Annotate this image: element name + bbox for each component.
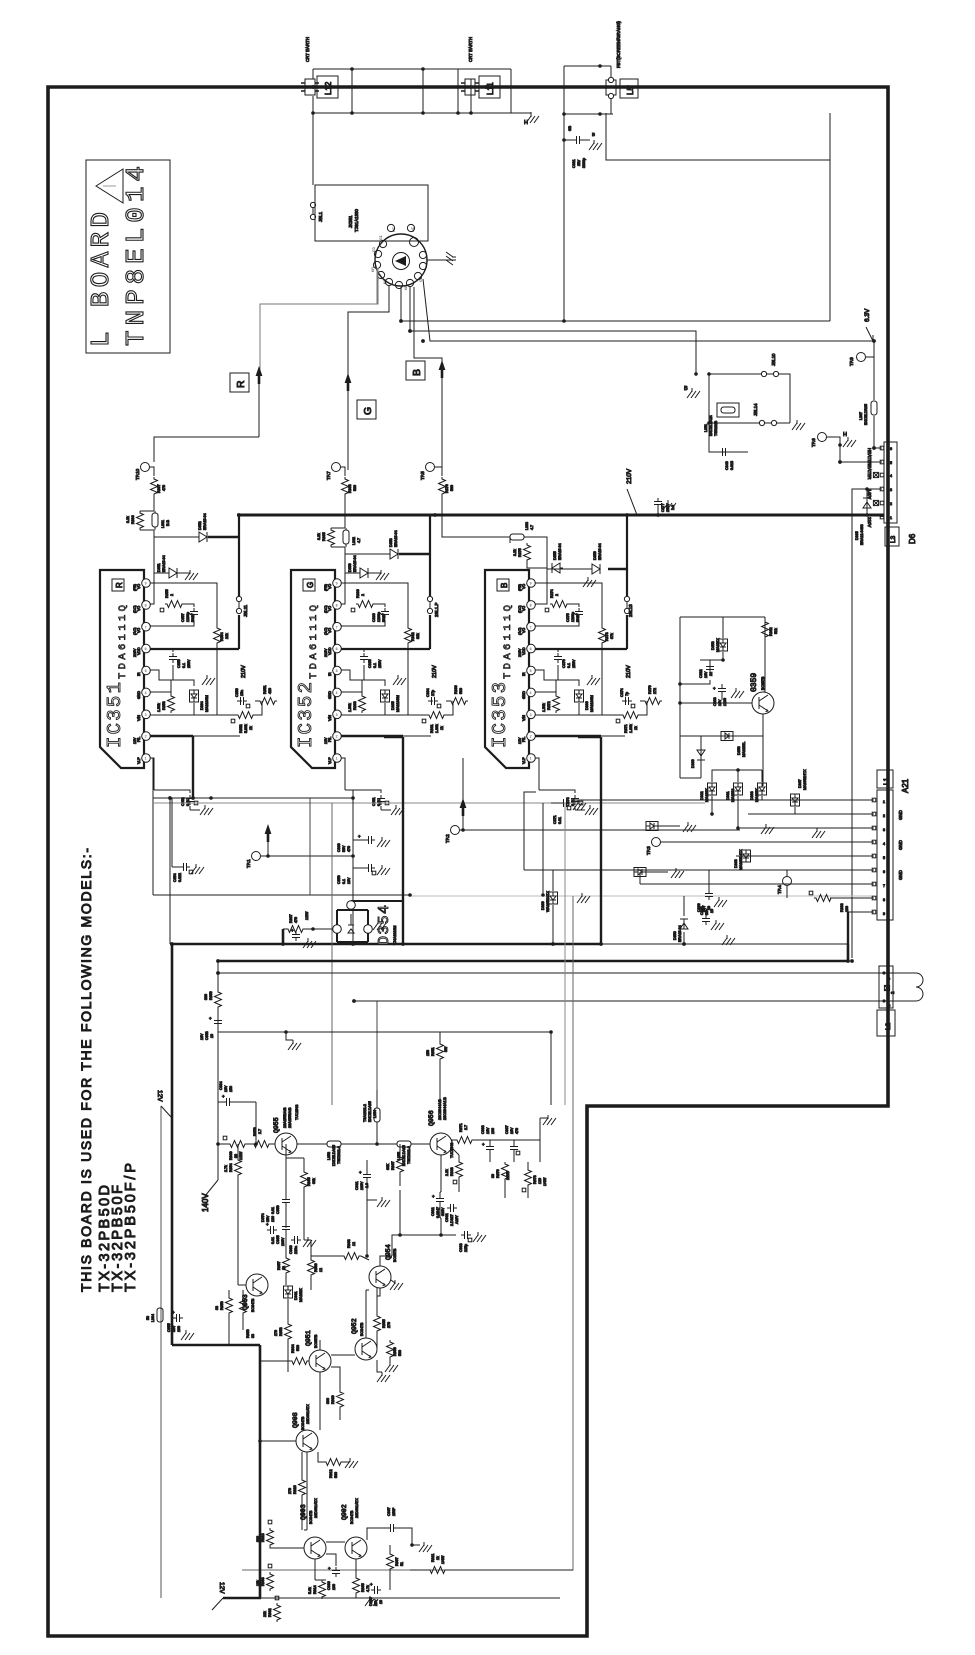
svg-text:51: 51	[400, 1562, 404, 1566]
junction dots top rails	[311, 67, 473, 115]
test point TP.4	[783, 877, 792, 886]
wire: R382 to collector	[763, 639, 765, 692]
resistor R368	[342, 477, 349, 496]
diode D365 boxed	[381, 690, 390, 702]
resistor R969	[228, 1141, 247, 1148]
svg-text:G3: G3	[372, 247, 376, 252]
svg-text:L2: L2	[885, 1022, 892, 1030]
svg-text:TP.4: TP.4	[777, 885, 782, 894]
capacitor C960	[291, 1236, 301, 1244]
connector L12 symbol	[301, 79, 319, 95]
wire: input to pin8	[150, 573, 154, 604]
svg-text:7: 7	[530, 625, 532, 629]
svg-text:BXCELBA24: BXCELBA24	[709, 415, 713, 436]
svg-text:C357: C357	[181, 613, 185, 622]
svg-text:VDD: VDD	[522, 647, 526, 655]
svg-text:560: 560	[334, 1472, 338, 1478]
svg-text:MA313SM: MA313SM	[205, 695, 209, 712]
svg-text:3: 3	[883, 828, 885, 832]
diode D352	[154, 532, 210, 542]
svg-text:D364: D364	[200, 701, 204, 710]
svg-text:250V: 250V	[572, 659, 576, 668]
svg-text:D351: D351	[157, 563, 161, 572]
svg-text:VO: VO	[137, 584, 141, 589]
svg-text:VIN: VIN	[328, 715, 332, 721]
diode D360	[697, 750, 705, 760]
svg-text:C360: C360	[337, 843, 341, 852]
svg-text:TSK1011-2: TSK1011-2	[337, 1146, 341, 1164]
wire: IC352 pin2 thick drop	[384, 737, 403, 944]
resistor R365	[328, 528, 335, 547]
svg-text:VLP: VLP	[137, 757, 141, 764]
resistor R397	[151, 477, 158, 496]
resistor R954b	[290, 1358, 309, 1365]
diode D366 boxed	[575, 690, 584, 702]
svg-text:L351: L351	[704, 424, 708, 432]
svg-text:FBT(SCREEN/GRANG): FBT(SCREEN/GRANG)	[616, 21, 621, 68]
svg-text:210V: 210V	[518, 648, 522, 657]
capacitor C376	[557, 649, 559, 680]
svg-text:C959: C959	[276, 1205, 280, 1214]
svg-text:12: 12	[282, 1266, 286, 1270]
svg-text:7: 7	[336, 625, 338, 629]
wire: Q903/Q902 net	[315, 1542, 356, 1580]
capacitor C355	[172, 649, 174, 680]
wire: pin5 row	[150, 670, 194, 686]
wire: pin3 row	[535, 714, 621, 716]
svg-text:BC847B: BC847B	[350, 1510, 354, 1524]
resistor R970b	[502, 1162, 509, 1181]
capacitor C962	[447, 1204, 457, 1212]
svg-text:560: 560	[459, 688, 463, 694]
svg-text:ERA15-04: ERA15-04	[394, 530, 398, 547]
svg-text:NC: NC	[411, 226, 415, 232]
models note text	[78, 848, 139, 1292]
wire: pin9 to R373	[535, 583, 602, 626]
svg-text:C355: C355	[177, 659, 181, 668]
capacitor C982	[436, 1195, 444, 1205]
box B	[406, 361, 425, 380]
wire: B arrow down	[441, 378, 443, 470]
svg-text:180: 180	[271, 1216, 275, 1222]
capacitor C987	[510, 1143, 518, 1153]
svg-text:GND: GND	[898, 840, 903, 850]
wire: gray feedback row	[153, 802, 705, 804]
capacitor C988	[486, 1143, 494, 1153]
svg-text:2SD601ATX: 2SD601ATX	[355, 1498, 359, 1518]
arrow TP1	[265, 824, 272, 842]
diode D361	[734, 783, 743, 795]
test point TP.1	[252, 852, 261, 861]
svg-text:2: 2	[883, 814, 885, 818]
svg-text:2: 2	[336, 735, 338, 739]
wire: pin4 gnd row	[535, 691, 556, 693]
svg-text:ERA15-04: ERA15-04	[678, 925, 682, 942]
svg-text:150: 150	[426, 1050, 430, 1056]
diode D365	[863, 498, 871, 508]
svg-text:VO: VO	[328, 606, 332, 611]
capacitor C351	[345, 790, 391, 810]
capacitor C371	[551, 802, 560, 804]
svg-text:R361: R361	[430, 724, 434, 733]
svg-text:WA3051HTX: WA3051HTX	[546, 891, 550, 912]
svg-text:R905: R905	[361, 1583, 365, 1592]
svg-text:TP.10: TP.10	[135, 468, 140, 480]
wire: Q955 base/collector	[218, 1102, 275, 1144]
arrow G	[345, 373, 352, 391]
svg-text:2: 2	[170, 594, 174, 596]
svg-text:2.7: 2.7	[464, 1125, 468, 1130]
svg-text:0.1: 0.1	[567, 663, 571, 668]
capacitor C357	[150, 604, 194, 626]
svg-text:TSK1011-2: TSK1011-2	[407, 1146, 411, 1164]
svg-text:(AC): (AC)	[133, 628, 137, 635]
wire: screen net down	[563, 140, 565, 321]
svg-text:BC847B: BC847B	[360, 1322, 364, 1336]
svg-text:33: 33	[251, 1334, 255, 1338]
svg-text:8: 8	[530, 603, 532, 607]
svg-text:+: +	[209, 1016, 212, 1021]
svg-text:C907: C907	[387, 1507, 391, 1516]
svg-text:3: 3	[890, 488, 892, 492]
svg-text:R918: R918	[261, 1533, 265, 1542]
svg-text:R370: R370	[648, 685, 652, 694]
svg-text:C905: C905	[369, 1597, 373, 1606]
svg-text:33: 33	[215, 1306, 219, 1310]
svg-text:GND: GND	[137, 691, 141, 699]
svg-text:JK351: JK351	[348, 215, 353, 228]
inductor L953	[327, 1141, 341, 1147]
label 12V top	[161, 1106, 172, 1118]
svg-text:C380: C380	[697, 903, 701, 912]
svg-text:D367: D367	[798, 779, 802, 788]
svg-text:2: 2	[530, 735, 532, 739]
svg-text:ERA22-0493: ERA22-0493	[860, 524, 864, 545]
svg-text:160V: 160V	[360, 1181, 364, 1190]
ground D366	[587, 675, 600, 685]
title block frame	[86, 160, 170, 353]
svg-text:+: +	[222, 1094, 225, 1099]
svg-text:D366: D366	[585, 701, 589, 710]
svg-text:150: 150	[229, 1086, 233, 1092]
wire: socket to heater bundle	[401, 113, 873, 374]
resistor R372	[555, 680, 557, 694]
resistor R373	[599, 626, 606, 645]
resistor R968	[456, 1160, 463, 1179]
svg-text:3300p: 3300p	[582, 158, 586, 168]
svg-text:KR: KR	[371, 267, 375, 272]
wire: D352 thick to 210V vert	[208, 536, 239, 539]
svg-text:120: 120	[538, 1178, 542, 1184]
svg-text:100: 100	[177, 1326, 181, 1332]
wire: R input	[154, 437, 259, 462]
svg-text:27p: 27p	[431, 690, 435, 696]
svg-text:ERA15-04: ERA15-04	[353, 555, 357, 572]
svg-text:16V: 16V	[704, 671, 708, 678]
svg-text:D353: D353	[737, 746, 741, 755]
svg-text:R365: R365	[322, 532, 326, 541]
svg-text:470: 470	[347, 846, 351, 852]
svg-text:12: 12	[352, 1242, 356, 1246]
svg-text:R959: R959	[246, 1329, 250, 1338]
svg-text:5: 5	[336, 669, 338, 673]
svg-text:150P: 150P	[392, 1507, 396, 1516]
resistor R973	[525, 1168, 532, 1187]
svg-text:R956: R956	[393, 1347, 397, 1356]
svg-text:+: +	[713, 686, 716, 691]
svg-text:8.2k: 8.2k	[317, 533, 321, 540]
wire: 210V bus	[237, 515, 882, 517]
wire: 210V vertical R	[238, 515, 240, 649]
svg-text:R362: R362	[411, 632, 415, 641]
inductor L383	[510, 534, 524, 540]
svg-text:C988: C988	[481, 1125, 485, 1134]
svg-text:D360: D360	[691, 759, 695, 768]
svg-text:VIN: VIN	[522, 715, 526, 721]
capacitor C907	[387, 1524, 397, 1532]
svg-text:VIN: VIN	[137, 715, 141, 721]
svg-text:G: G	[362, 407, 374, 415]
warning triangle	[96, 169, 123, 203]
resistor RPIP	[324, 1459, 343, 1466]
wire: thick mid bus 944	[170, 943, 601, 945]
svg-text:C351: C351	[372, 797, 376, 806]
svg-text:6: 6	[530, 647, 532, 651]
svg-text:16V: 16V	[224, 1085, 228, 1092]
svg-text:D365: D365	[855, 531, 859, 540]
inductor L955	[397, 1141, 411, 1147]
IC351 pins	[142, 579, 151, 763]
svg-text:VO: VO	[328, 584, 332, 589]
wire: pin9 to R354	[150, 583, 217, 626]
ground B stub	[687, 388, 700, 398]
wire: R arrow down	[258, 384, 260, 437]
connector L11 box	[479, 76, 500, 98]
capacitor C961	[363, 1171, 371, 1181]
svg-text:420: 420	[268, 688, 272, 694]
capacitor D974	[267, 1226, 277, 1234]
wire: G net from socket	[348, 286, 389, 375]
svg-text:5: 5	[530, 669, 532, 673]
capacitor C985	[282, 1223, 290, 1233]
svg-text:+: +	[359, 1170, 362, 1175]
resistor R371	[621, 712, 640, 719]
svg-text:D356: D356	[593, 551, 597, 560]
IC351 pin labels	[133, 584, 141, 764]
svg-text:R955: R955	[382, 1319, 386, 1328]
svg-text:R958: R958	[220, 1301, 224, 1310]
svg-text:BC857B: BC857B	[761, 676, 765, 690]
svg-text:IR: IR	[522, 672, 526, 676]
svg-text:R366: R366	[356, 589, 360, 598]
svg-text:GB: GB	[568, 125, 572, 131]
ground H (top)	[526, 113, 539, 123]
wire: pin2 thick down	[341, 735, 403, 737]
svg-text:VO: VO	[522, 584, 526, 589]
svg-text:(DC): (DC)	[133, 605, 137, 613]
svg-text:CRT EARTH: CRT EARTH	[468, 37, 473, 62]
wire: D355 thick to 210V vert	[608, 568, 627, 571]
svg-text:6: 6	[883, 870, 885, 874]
svg-text:D352: D352	[198, 521, 202, 530]
wire: L1 pin rows	[524, 792, 874, 912]
svg-text:MA313SM: MA313SM	[590, 695, 594, 712]
svg-text:MA3051HTX: MA3051HTX	[803, 769, 807, 790]
svg-text:R964: R964	[291, 1344, 295, 1353]
svg-text:L BOARD: L BOARD	[86, 212, 116, 347]
resistor R958	[226, 1296, 233, 1315]
svg-text:GND: GND	[898, 870, 903, 880]
svg-text:1k: 1k	[436, 1556, 440, 1560]
svg-text:D353: D353	[389, 538, 393, 547]
resistor R957	[283, 1256, 290, 1275]
arrow R	[256, 366, 263, 384]
capacitor C360	[353, 839, 365, 841]
svg-text:12V: 12V	[218, 1582, 225, 1594]
svg-text:TP.1: TP.1	[246, 859, 251, 868]
jumper JBL14	[759, 420, 776, 425]
svg-text:R375: R375	[518, 548, 522, 557]
wire: top frame rails	[313, 69, 511, 113]
resistor R918	[267, 1528, 274, 1547]
svg-text:0.1: 0.1	[373, 663, 377, 668]
capacitor C955	[173, 1314, 183, 1322]
capacitor C373	[539, 790, 585, 810]
svg-text:EXCELDA35: EXCELDA35	[368, 1101, 372, 1122]
svg-text:VO: VO	[522, 628, 526, 633]
svg-text:Q956: Q956	[428, 1110, 435, 1126]
socket pins	[373, 224, 426, 288]
wire: pin3 row	[150, 714, 236, 716]
svg-text:12V: 12V	[133, 737, 137, 744]
svg-text:2: 2	[890, 502, 892, 506]
wire: R net from socket	[260, 268, 378, 370]
wire: pin1	[150, 758, 154, 790]
wire: Q956 collector chain	[304, 1452, 307, 1530]
wire: 12V rail left	[160, 1106, 162, 1598]
svg-text:Q951: Q951	[305, 1330, 312, 1346]
svg-text:C985: C985	[276, 1235, 280, 1244]
wire: Q951/Q952 links	[331, 1290, 369, 1390]
svg-text:R373: R373	[605, 632, 609, 641]
capacitor C380	[705, 912, 707, 916]
svg-text:C982: C982	[431, 1207, 435, 1216]
svg-text:VO: VO	[137, 606, 141, 611]
resistor R963	[342, 1253, 361, 1260]
svg-text:1: 1	[530, 757, 532, 761]
svg-text:6: 6	[145, 647, 147, 651]
svg-text:R926: R926	[293, 1485, 297, 1494]
svg-text:R: R	[115, 582, 124, 588]
wire: pin1 box right edge	[309, 798, 311, 895]
resistor R914	[319, 1580, 326, 1599]
wire: pin5 row	[535, 670, 579, 686]
svg-text:L367: L367	[859, 412, 863, 420]
wire: pin6 210V feed	[535, 648, 627, 650]
svg-text:100V: 100V	[281, 1237, 285, 1246]
connector L5 box	[620, 79, 638, 98]
label 210V flag	[627, 489, 637, 515]
wire: gray drop x565	[564, 803, 566, 1105]
wire: TP6 to heater pin5	[840, 445, 882, 462]
svg-text:FIL: FIL	[137, 737, 141, 742]
resistor R363	[361, 680, 363, 694]
svg-text:210V: 210V	[241, 665, 247, 678]
svg-text:87k: 87k	[610, 633, 614, 639]
svg-text:R351: R351	[263, 685, 267, 694]
svg-text:VDD: VDD	[328, 647, 332, 655]
svg-text:(AC): (AC)	[518, 628, 522, 635]
svg-text:22k: 22k	[263, 1611, 267, 1617]
svg-text:500V: 500V	[576, 613, 580, 622]
resistor R375	[524, 543, 531, 562]
svg-text:DXCELDA35: DXCELDA35	[332, 1145, 336, 1166]
svg-text:VDD: VDD	[137, 647, 141, 655]
svg-text:560: 560	[450, 485, 454, 491]
label 6.3V	[866, 327, 873, 341]
label 12V bottom	[212, 1598, 223, 1610]
svg-text:B: B	[592, 132, 595, 137]
svg-text:+: +	[328, 1566, 331, 1571]
svg-text:100: 100	[332, 1584, 336, 1590]
svg-text:R388: R388	[840, 903, 844, 912]
svg-text:2SL13: 2SL13	[628, 604, 633, 617]
wire: bias drop into amp	[331, 803, 333, 1105]
svg-text:225p: 225p	[464, 1244, 468, 1252]
svg-text:10V: 10V	[510, 1127, 514, 1134]
svg-text:6: 6	[890, 447, 892, 451]
svg-text:50V: 50V	[702, 905, 706, 912]
svg-text:4: 4	[883, 842, 885, 846]
svg-text:R957: R957	[277, 1261, 281, 1270]
svg-text:R374: R374	[550, 589, 554, 598]
inductor L361	[152, 513, 158, 527]
svg-text:B: B	[411, 369, 423, 376]
jumper JBL1	[310, 202, 315, 219]
wire: L5 frame	[564, 66, 613, 140]
svg-text:EXCELDA35: EXCELDA35	[402, 1145, 406, 1166]
svg-text:IC352: IC352	[295, 682, 317, 748]
svg-text:0.01: 0.01	[271, 1237, 275, 1244]
svg-text:D356: D356	[673, 931, 677, 940]
svg-text:R396: R396	[131, 515, 135, 524]
svg-text:210V: 210V	[432, 665, 438, 678]
svg-text:TUC2543: TUC2543	[295, 1105, 299, 1120]
svg-text:R376: R376	[445, 484, 449, 493]
svg-text:C346: C346	[725, 461, 729, 470]
wire: input to pin8	[535, 568, 547, 604]
svg-text:BC857B: BC857B	[314, 1334, 318, 1348]
svg-text:GND: GND	[898, 810, 903, 820]
resistor R959	[240, 1296, 247, 1315]
svg-text:G: G	[306, 582, 315, 588]
resistor R965	[301, 1170, 308, 1189]
svg-text:R953: R953	[279, 1327, 283, 1336]
svg-text:R372: R372	[547, 701, 551, 710]
svg-text:TP.7: TP.7	[326, 471, 331, 480]
capacitor C377	[657, 507, 659, 515]
wire: gray row 895	[153, 894, 410, 896]
svg-text:C984: C984	[219, 1081, 223, 1090]
svg-text:R968: R968	[450, 1167, 454, 1176]
wire: G359 frame	[680, 617, 765, 778]
arrow B	[439, 360, 446, 378]
capacitor C382	[706, 663, 714, 673]
svg-text:TP.5: TP.5	[420, 471, 425, 480]
wire: R362 to pin3	[407, 645, 409, 715]
svg-text:H: H	[425, 259, 429, 262]
label L1	[877, 770, 893, 788]
